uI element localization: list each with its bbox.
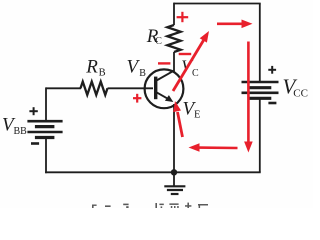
- wire right vertical upper: [259, 4, 261, 83]
- label VBB: [2, 115, 27, 137]
- transistor base bar: [154, 77, 157, 100]
- svg-text:B: B: [99, 67, 106, 78]
- svg-text:CC: CC: [293, 87, 308, 99]
- red plus at base: [133, 94, 141, 103]
- svg-text:C: C: [155, 36, 162, 47]
- resistor RC: [167, 25, 180, 52]
- wire RB to base: [108, 87, 154, 89]
- wire left vertical upper: [45, 87, 47, 121]
- svg-text:C: C: [192, 68, 199, 79]
- red arrow up to emitter: [173, 101, 182, 137]
- transistor collector lead: [157, 71, 174, 81]
- red minus left of collector: [158, 62, 170, 64]
- battery VCC plus sign: [268, 66, 276, 74]
- battery VBB plus sign: [29, 107, 37, 115]
- red minus below RC: [179, 53, 192, 55]
- wire emitter vertical: [173, 104, 175, 172]
- transistor emitter arrowhead: [165, 95, 173, 102]
- svg-text:B: B: [139, 68, 146, 79]
- battery VCC minus sign: [268, 102, 276, 105]
- transistor Q1 circle: [145, 69, 184, 108]
- red arrowhead down: [244, 142, 253, 153]
- svg-text:R: R: [85, 56, 98, 77]
- label VB: [127, 56, 147, 79]
- svg-text:BB: BB: [14, 126, 28, 137]
- label VE: [183, 99, 201, 121]
- transistor emitter lead: [157, 92, 170, 99]
- battery VBB: [27, 121, 62, 137]
- caption text marks: [155, 203, 208, 208]
- wire top horizontal: [174, 3, 261, 5]
- battery VBB minus sign: [31, 142, 39, 145]
- red arrow top right-pointing: [217, 20, 253, 29]
- red line right vertical: [247, 42, 250, 144]
- wire bottom horizontal: [45, 171, 261, 173]
- red plus at top of RC: [177, 12, 189, 22]
- wire collector column top: [173, 3, 175, 25]
- svg-text:E: E: [194, 110, 200, 121]
- ground: [164, 172, 185, 194]
- wire base horizontal (VBB top to RB): [46, 87, 81, 89]
- label VC: [181, 57, 199, 80]
- red arrow diagonal collector-current: [173, 31, 209, 91]
- wire left vertical lower: [45, 137, 47, 173]
- junction node: [171, 169, 177, 175]
- label RB: [85, 56, 105, 78]
- red arrow bottom left-pointing: [189, 143, 238, 152]
- caption figure-number marks: [92, 204, 129, 208]
- label VCC: [283, 74, 308, 99]
- wire right vertical lower: [259, 99, 261, 173]
- wire RC to collector: [173, 52, 175, 72]
- label RC: [146, 26, 163, 47]
- resistor RB: [81, 82, 108, 95]
- battery VCC: [242, 82, 279, 98]
